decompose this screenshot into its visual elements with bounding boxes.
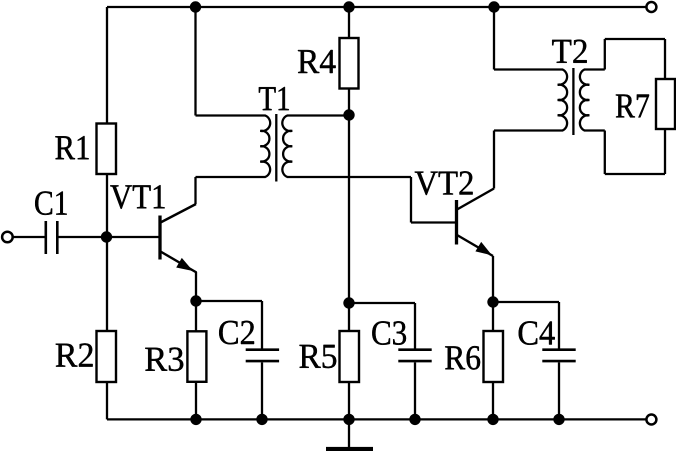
wire emitter node to R3 <box>195 301 197 331</box>
wire C2 bottom lead <box>261 362 263 419</box>
label T2 <box>552 40 587 63</box>
wire VT1 emitter vertical <box>195 272 197 301</box>
wire VT2 collector vertical <box>493 131 495 189</box>
resistor R6 <box>484 331 504 382</box>
wire VT2 base horizontal <box>411 221 457 223</box>
wire left bus lower <box>106 382 108 419</box>
wire R6 bottom <box>492 382 494 419</box>
wire R7 top lead <box>664 39 666 79</box>
resistor R3 <box>187 331 206 382</box>
node C2 bottom rail <box>256 414 267 425</box>
wire bottom rail <box>107 418 646 420</box>
wire T1 primary bottom <box>196 176 266 178</box>
wire C2 top lead <box>261 301 263 349</box>
node R3 bottom rail <box>190 414 201 425</box>
wire T2 feed vertical <box>493 7 495 70</box>
wire node to C2 <box>196 300 262 302</box>
label R7 <box>616 95 649 118</box>
label C1 <box>35 191 66 215</box>
label T1 <box>259 87 289 110</box>
node top junction 1 <box>190 1 201 12</box>
wire R7 loop left top <box>604 39 606 70</box>
wire R7 loop left bottom <box>604 131 606 175</box>
transistor VT1 <box>160 204 197 273</box>
node VT1 emitter <box>190 295 201 306</box>
wire T2 primary top <box>494 68 563 70</box>
wire R3 bottom <box>195 382 197 419</box>
wire R5 bottom lead <box>348 382 350 419</box>
node top junction 2 <box>343 1 354 12</box>
node output terminal top <box>646 2 656 12</box>
transformer T2 <box>558 68 590 135</box>
resistor R5 <box>340 331 360 382</box>
wire node2 to C4 <box>493 301 559 303</box>
wire VT2 base vertical <box>410 177 412 223</box>
wire T1 secondary bottom to VT2 <box>287 176 411 178</box>
node R5 top <box>343 297 354 308</box>
wire left bus middle <box>106 174 108 331</box>
wire R4 to R5 vertical <box>348 115 350 303</box>
node base VT1 <box>101 231 112 242</box>
wire C1 to base node <box>58 236 159 238</box>
wire T1 secondary top <box>287 114 349 116</box>
label R3 <box>145 348 183 372</box>
wire T2 primary bottom <box>494 129 563 131</box>
wire C3 top lead <box>414 303 416 349</box>
wire T2 secondary bottom <box>584 129 605 131</box>
resistor R2 <box>97 331 117 382</box>
wire VT2 emitter vertical <box>492 256 494 302</box>
wire T1 primary top <box>196 114 266 116</box>
wire T2 secondary top <box>584 68 605 70</box>
wire R4 top <box>348 7 350 38</box>
capacitor C4 <box>542 350 575 361</box>
wire R4 bottom <box>348 88 350 115</box>
resistor R1 <box>97 124 117 175</box>
capacitor C2 <box>246 350 279 361</box>
wire R7 loop bottom <box>605 173 665 175</box>
wire left bus upper <box>106 7 108 124</box>
node R6 bottom rail <box>487 414 498 425</box>
node VT2 emitter <box>487 296 498 307</box>
label R5 <box>300 345 337 368</box>
wire C4 top lead <box>558 302 560 349</box>
label R6 <box>445 346 480 370</box>
wire R7 loop top <box>605 38 665 40</box>
wire R7 bottom lead <box>664 129 666 174</box>
wire emitter node2 to R6 <box>492 302 494 331</box>
capacitor C3 <box>398 350 431 361</box>
transformer T1 <box>260 114 292 182</box>
wire C4 bottom lead <box>558 362 560 419</box>
transistor VT2 <box>457 189 495 257</box>
wire VT1 collector vertical <box>194 177 196 204</box>
wire top rail <box>107 6 646 8</box>
label C4 <box>519 321 555 345</box>
node top junction 3 <box>488 1 499 12</box>
node ground rail <box>343 414 354 425</box>
resistor R4 <box>340 38 359 89</box>
capacitor C1 <box>46 221 58 254</box>
label R1 <box>55 136 88 159</box>
node C3 bottom rail <box>409 414 420 425</box>
wire T1 feed vertical <box>194 7 196 116</box>
wire node to C3 <box>349 302 415 304</box>
label C2 <box>219 321 254 345</box>
label VT1 <box>110 185 164 209</box>
label VT2 <box>415 171 473 195</box>
wire ground stub <box>348 419 350 447</box>
node input terminal <box>2 232 13 243</box>
node output terminal bottom <box>646 415 656 425</box>
ground <box>326 447 373 451</box>
label R4 <box>298 50 336 73</box>
resistor R7 <box>656 79 675 129</box>
wire input to C1 <box>13 236 45 238</box>
wire C3 bottom lead <box>414 362 416 419</box>
wire R5 top lead <box>348 303 350 331</box>
label C3 <box>372 321 406 345</box>
node C4 bottom rail <box>553 414 564 425</box>
label R2 <box>56 343 93 366</box>
node R4 bottom <box>343 109 354 120</box>
